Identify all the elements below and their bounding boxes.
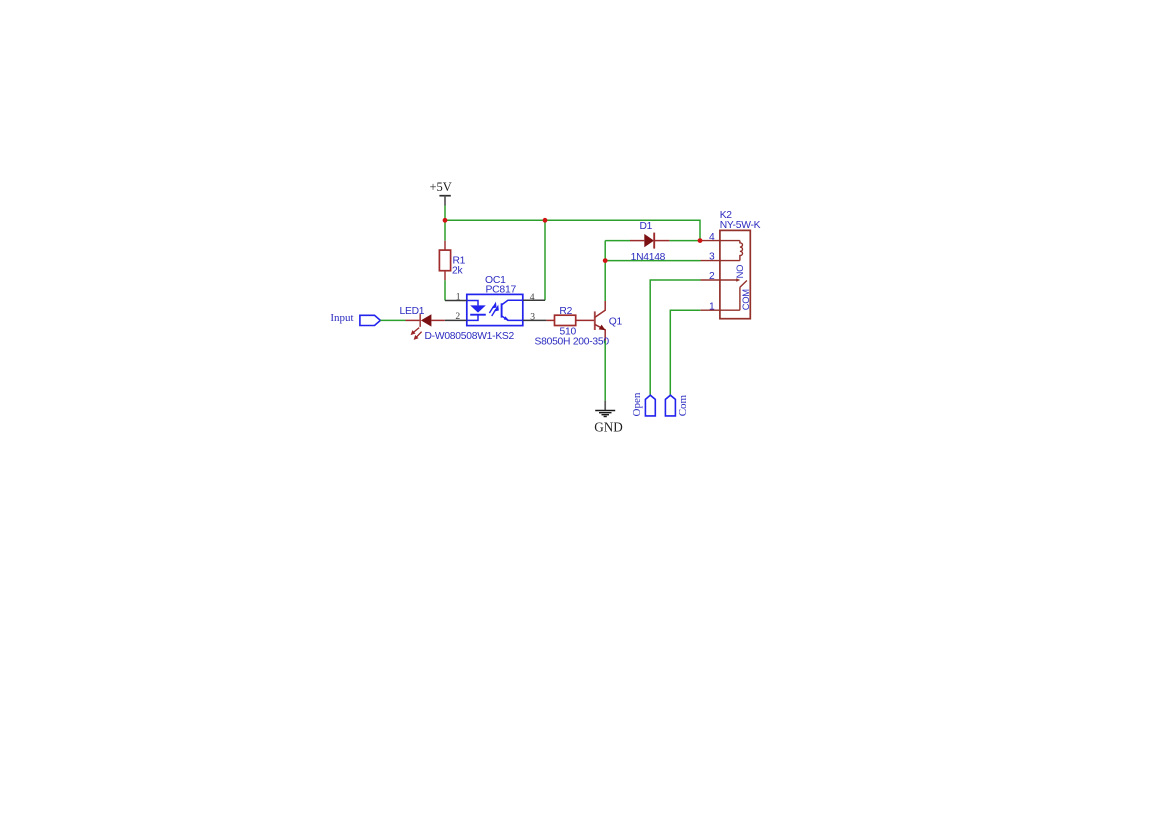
LED1 emission arrows: [411, 328, 421, 340]
resistor R2: [555, 306, 577, 338]
svg-text:S8050H 200-350: S8050H 200-350: [535, 336, 610, 347]
wire rail to OC1 pin4: [544, 220, 546, 300]
relay pin 2 lead: [701, 279, 738, 281]
pin 2: [445, 311, 467, 322]
svg-text:2: 2: [709, 271, 715, 282]
op-amp U-OC1 box: [467, 294, 523, 325]
svg-text:Open: Open: [631, 392, 643, 416]
op-amp OC1 labels: [485, 275, 516, 296]
connector Input: [360, 315, 381, 325]
wire rail to R1: [444, 220, 446, 240]
resistor R1: [439, 241, 465, 281]
power port +5V: [430, 180, 452, 205]
wire pin2 to Open: [650, 280, 700, 395]
pin 1: [445, 292, 467, 303]
wire pin1 to Com: [670, 310, 700, 395]
node junction D: [603, 258, 608, 263]
relay pin 3 lead: [701, 260, 740, 262]
OC1 internal LED: [467, 301, 486, 321]
svg-text:2k: 2k: [452, 266, 463, 277]
svg-text:+5V: +5V: [430, 180, 452, 194]
node junction B: [543, 218, 548, 223]
relay coil: [740, 241, 743, 261]
svg-text:R2: R2: [559, 306, 572, 317]
svg-text:4: 4: [709, 232, 715, 243]
pin 4: [523, 292, 545, 303]
transistor Q1: [535, 301, 623, 347]
OC1 light arrows: [489, 303, 498, 316]
svg-text:NY-5W-K: NY-5W-K: [720, 220, 761, 231]
wire +5V stem to rail: [444, 206, 446, 221]
svg-text:3: 3: [530, 312, 535, 323]
svg-text:NO: NO: [734, 265, 745, 279]
node junction C: [698, 238, 703, 243]
relay switch blade: [740, 281, 747, 288]
wire R1 to OC1 pin1: [444, 280, 446, 300]
relay pin 1 lead: [700, 309, 740, 311]
connector Com: [665, 395, 675, 416]
svg-text:D-W080508W1-KS2: D-W080508W1-KS2: [425, 331, 515, 342]
svg-text:D1: D1: [640, 221, 653, 232]
wire Q1 emitter to GND: [604, 341, 606, 401]
OC1 phototransistor: [502, 300, 523, 320]
pin 3: [523, 312, 547, 323]
svg-text:COM: COM: [740, 289, 751, 311]
svg-text:3: 3: [709, 251, 715, 262]
svg-text:Com: Com: [677, 394, 689, 416]
wire OC1 pin3 to R2: [546, 319, 554, 321]
wire input to LED1: [380, 319, 405, 321]
svg-text:LED1: LED1: [400, 306, 425, 317]
svg-text:2: 2: [455, 311, 460, 322]
relay pin 4 lead: [700, 240, 740, 242]
ground: [594, 401, 623, 435]
wire top rail: [445, 220, 700, 240]
node junction A: [443, 218, 448, 223]
relay K2 box: [720, 230, 750, 318]
LED LED1: [400, 306, 445, 327]
svg-text:Input: Input: [330, 312, 353, 324]
svg-text:4: 4: [530, 292, 535, 303]
connector Open: [645, 395, 655, 416]
wire pin3 row: [605, 260, 700, 262]
wire R2 to Q1 base: [576, 319, 595, 321]
wire Q1 collector up to diode row: [604, 241, 606, 301]
svg-text:1: 1: [456, 292, 461, 303]
diode D1: [605, 221, 700, 263]
svg-text:GND: GND: [594, 420, 623, 435]
svg-text:Q1: Q1: [609, 317, 623, 328]
svg-text:1: 1: [709, 301, 715, 312]
